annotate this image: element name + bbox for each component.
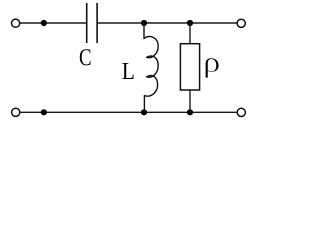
inductor label L — [122, 63, 133, 79]
terminal top-right — [237, 19, 245, 27]
capacitor C1 right plate — [96, 3, 98, 43]
terminal bottom-left — [12, 108, 20, 116]
top rail right wire — [97, 22, 237, 24]
node dot top at resistor — [187, 20, 193, 26]
resistor lead bottom — [189, 90, 191, 112]
capacitor C1 left plate — [86, 3, 88, 43]
node dot bottom-left — [41, 109, 47, 115]
node dot bottom at inductor — [141, 109, 147, 115]
capacitor label C — [80, 49, 91, 65]
node dot bottom at resistor — [187, 109, 193, 115]
inductor L1 coil — [144, 23, 158, 112]
resistor label rho — [205, 58, 219, 78]
top rail left wire — [20, 22, 87, 24]
terminal bottom-right — [237, 108, 245, 116]
terminal top-left — [12, 19, 20, 27]
resistor lead top — [189, 23, 191, 44]
bottom rail wire — [20, 111, 237, 113]
resistor body — [180, 44, 199, 90]
node dot top at inductor — [141, 20, 147, 26]
node dot top-left — [41, 20, 47, 26]
